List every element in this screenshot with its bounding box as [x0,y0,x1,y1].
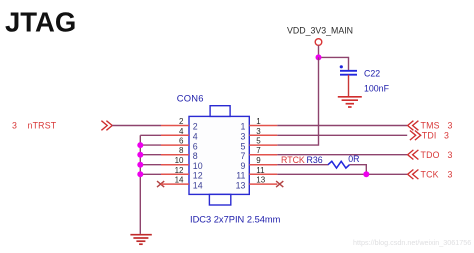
svg-text:5: 5 [256,137,261,146]
svg-text:3: 3 [448,121,453,131]
wire pin1 to TMS [277,125,407,127]
svg-text:13: 13 [236,180,246,190]
port nTRST chevron [101,121,107,131]
pin 1 [249,125,277,127]
pin 11 [249,173,277,175]
junction bus pin10 [137,162,143,168]
svg-text:11: 11 [236,171,245,181]
port TDI chevron [410,131,416,141]
port TCK chevron [408,170,414,180]
svg-text:TDO: TDO [421,150,440,160]
junction bus pin12 [137,171,143,177]
junction VDD node [316,54,322,60]
svg-text:8: 8 [193,151,198,161]
wire pin4 to bus [140,134,161,136]
svg-text:6: 6 [193,141,198,151]
wire R36 to TCK net [350,165,367,175]
svg-text:12: 12 [175,166,184,175]
pin 12 [161,173,189,175]
svg-text:R36: R36 [307,155,323,165]
wire nTRST to pin2 [112,125,161,127]
wire VDD branch to C22 [319,57,349,70]
svg-text:https://blog.csdn.net/weixin_3: https://blog.csdn.net/weixin_3061756 [353,238,471,247]
svg-text:5: 5 [240,141,245,151]
svg-text:4: 4 [179,127,184,136]
svg-text:3: 3 [12,120,17,130]
wire pin6 to bus [140,144,161,146]
wire pin3 to TDI [277,134,407,136]
svg-text:8: 8 [179,146,184,155]
ground at C22 [338,97,362,107]
svg-text:10: 10 [193,161,203,171]
no-connect X pin13 [276,181,283,187]
svg-text:100nF: 100nF [364,84,390,94]
svg-text:13: 13 [256,176,265,185]
pin 9 [249,164,277,166]
svg-text:3: 3 [448,150,453,160]
wire VDD stem [318,45,320,57]
svg-text:IDC3 2x7PIN 2.54mm: IDC3 2x7PIN 2.54mm [190,214,281,224]
svg-text:VDD_3V3_MAIN: VDD_3V3_MAIN [287,25,353,35]
svg-text:TCK: TCK [421,170,439,180]
port TMS chevron [408,121,414,131]
power port VDD_3V3_MAIN circle [315,39,322,46]
svg-text:1: 1 [240,122,245,132]
svg-text:CON6: CON6 [177,92,204,103]
svg-text:3: 3 [240,132,245,142]
pin number labels inside right [236,122,246,191]
connector CON6 top tab [210,106,230,117]
svg-text:nTRST: nTRST [28,120,57,130]
connector CON6 bottom tab [209,194,230,205]
svg-text:3: 3 [444,131,449,141]
pin 10 [161,164,189,166]
pin number labels outside right [256,117,265,185]
svg-text:6: 6 [179,137,184,146]
wire pin11 to TCK [277,173,407,175]
wire pin8 to bus [140,154,161,156]
wire C22 to ground [348,75,350,96]
ground left bus [130,235,151,245]
pin 7 [249,154,277,156]
pin number labels inside left [193,122,203,191]
junction TCK node [363,171,369,177]
pin 8 [161,154,189,156]
wire pin12 to bus [140,173,161,175]
svg-text:10: 10 [175,156,184,165]
svg-text:9: 9 [240,161,245,171]
svg-text:11: 11 [256,166,265,175]
svg-text:12: 12 [193,171,203,181]
svg-text:0R: 0R [348,154,359,164]
junction bus pin6 [137,142,143,148]
wire pin10 to bus [140,164,161,166]
svg-text:TMS: TMS [421,121,440,131]
svg-text:1: 1 [256,117,261,126]
svg-text:7: 7 [240,151,245,161]
pin 13 [249,183,277,185]
pin 2 [161,125,189,127]
no-connect X pin14 [157,181,164,187]
svg-text:14: 14 [175,176,184,185]
port TDO chevron [408,150,414,160]
pin 4 [161,134,189,136]
pin 14 [161,183,189,185]
wire gnd bus vertical [139,135,141,234]
svg-text:2: 2 [179,117,184,126]
junction bus pin8 [137,152,143,158]
connector CON6 body [189,116,249,194]
svg-text:9: 9 [256,156,261,165]
capacitor C22 [340,65,357,74]
svg-text:7: 7 [256,146,261,155]
wire pin7 to TDO [277,154,407,156]
svg-text:RTCK: RTCK [281,155,305,165]
wire pin9 to R36 [277,164,328,166]
pin 5 [249,144,277,146]
svg-text:3: 3 [256,127,261,136]
svg-text:14: 14 [193,180,203,190]
svg-text:TDI: TDI [422,131,437,141]
svg-text:3: 3 [448,170,453,180]
svg-text:C22: C22 [364,69,380,79]
pin 3 [249,134,277,136]
pin number labels outside left [175,117,184,185]
resistor R36 [328,161,350,168]
svg-text:2: 2 [193,122,198,132]
pin 6 [161,144,189,146]
svg-text:4: 4 [193,132,198,142]
svg-text:JTAG: JTAG [5,6,76,37]
wire VDD rail down to pin5 [277,57,318,145]
